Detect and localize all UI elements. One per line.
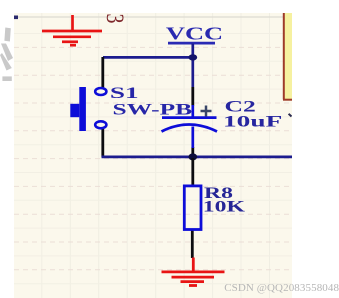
svg-text:10K: 10K [203, 198, 245, 215]
svg-text:VCC: VCC [166, 24, 223, 44]
svg-text:S1: S1 [110, 84, 139, 102]
svg-text:CSDN @QQ2083558048: CSDN @QQ2083558048 [224, 282, 339, 294]
svg-text:10uF: 10uF [223, 112, 282, 130]
svg-text:SW-PB: SW-PB [113, 100, 193, 118]
svg-text:3: 3 [101, 14, 129, 24]
